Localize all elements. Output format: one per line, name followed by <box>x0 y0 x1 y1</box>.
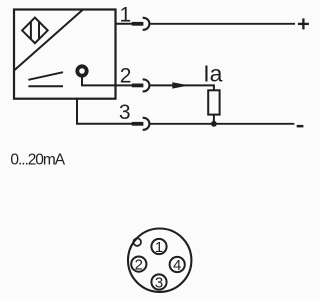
svg-text:3: 3 <box>119 101 131 124</box>
connector contact 3 <box>132 118 150 130</box>
connector pin 2 <box>131 257 146 274</box>
plus terminal label <box>298 18 309 29</box>
wire 3 to minus terminal <box>149 123 294 125</box>
switch contact S <box>28 72 63 86</box>
connector contact 1 <box>132 18 150 30</box>
pin 1 label <box>119 3 131 26</box>
connector pin 3 <box>151 274 166 291</box>
load current label Ia <box>203 60 222 86</box>
svg-text:2: 2 <box>120 65 132 88</box>
minus terminal label <box>297 125 304 128</box>
junction dot <box>211 121 217 127</box>
inductive sensing face symbol <box>22 18 48 44</box>
wire 3 from body bottom <box>77 99 143 124</box>
wire from output terminal to pin 2 <box>82 78 143 86</box>
output range label 0...20mA <box>10 151 65 168</box>
connector pin 1 <box>151 239 166 256</box>
connector contact 2 <box>132 79 150 91</box>
svg-text:0...20mA: 0...20mA <box>10 151 65 168</box>
pin 3 label <box>119 101 131 124</box>
wire 1 to plus terminal <box>149 23 295 25</box>
connector keying notch <box>133 238 141 246</box>
pin 2 label <box>120 65 132 88</box>
connector pin 4 <box>170 257 185 274</box>
svg-text:3: 3 <box>155 274 163 291</box>
sensor body outline <box>14 10 116 99</box>
load resistor <box>208 90 219 114</box>
svg-text:1: 1 <box>155 239 163 256</box>
switch output terminal circle <box>77 66 86 75</box>
wire 1 from body <box>116 23 144 25</box>
svg-text:4: 4 <box>173 257 181 274</box>
wire 2 to load <box>149 85 214 90</box>
diagonal divider <box>14 10 83 71</box>
wire resistor to minus rail <box>213 115 215 124</box>
svg-text:1: 1 <box>119 3 131 26</box>
current direction arrow <box>172 82 189 88</box>
connector face outline <box>128 229 191 292</box>
svg-text:2: 2 <box>135 257 143 274</box>
svg-text:Ia: Ia <box>203 60 222 86</box>
